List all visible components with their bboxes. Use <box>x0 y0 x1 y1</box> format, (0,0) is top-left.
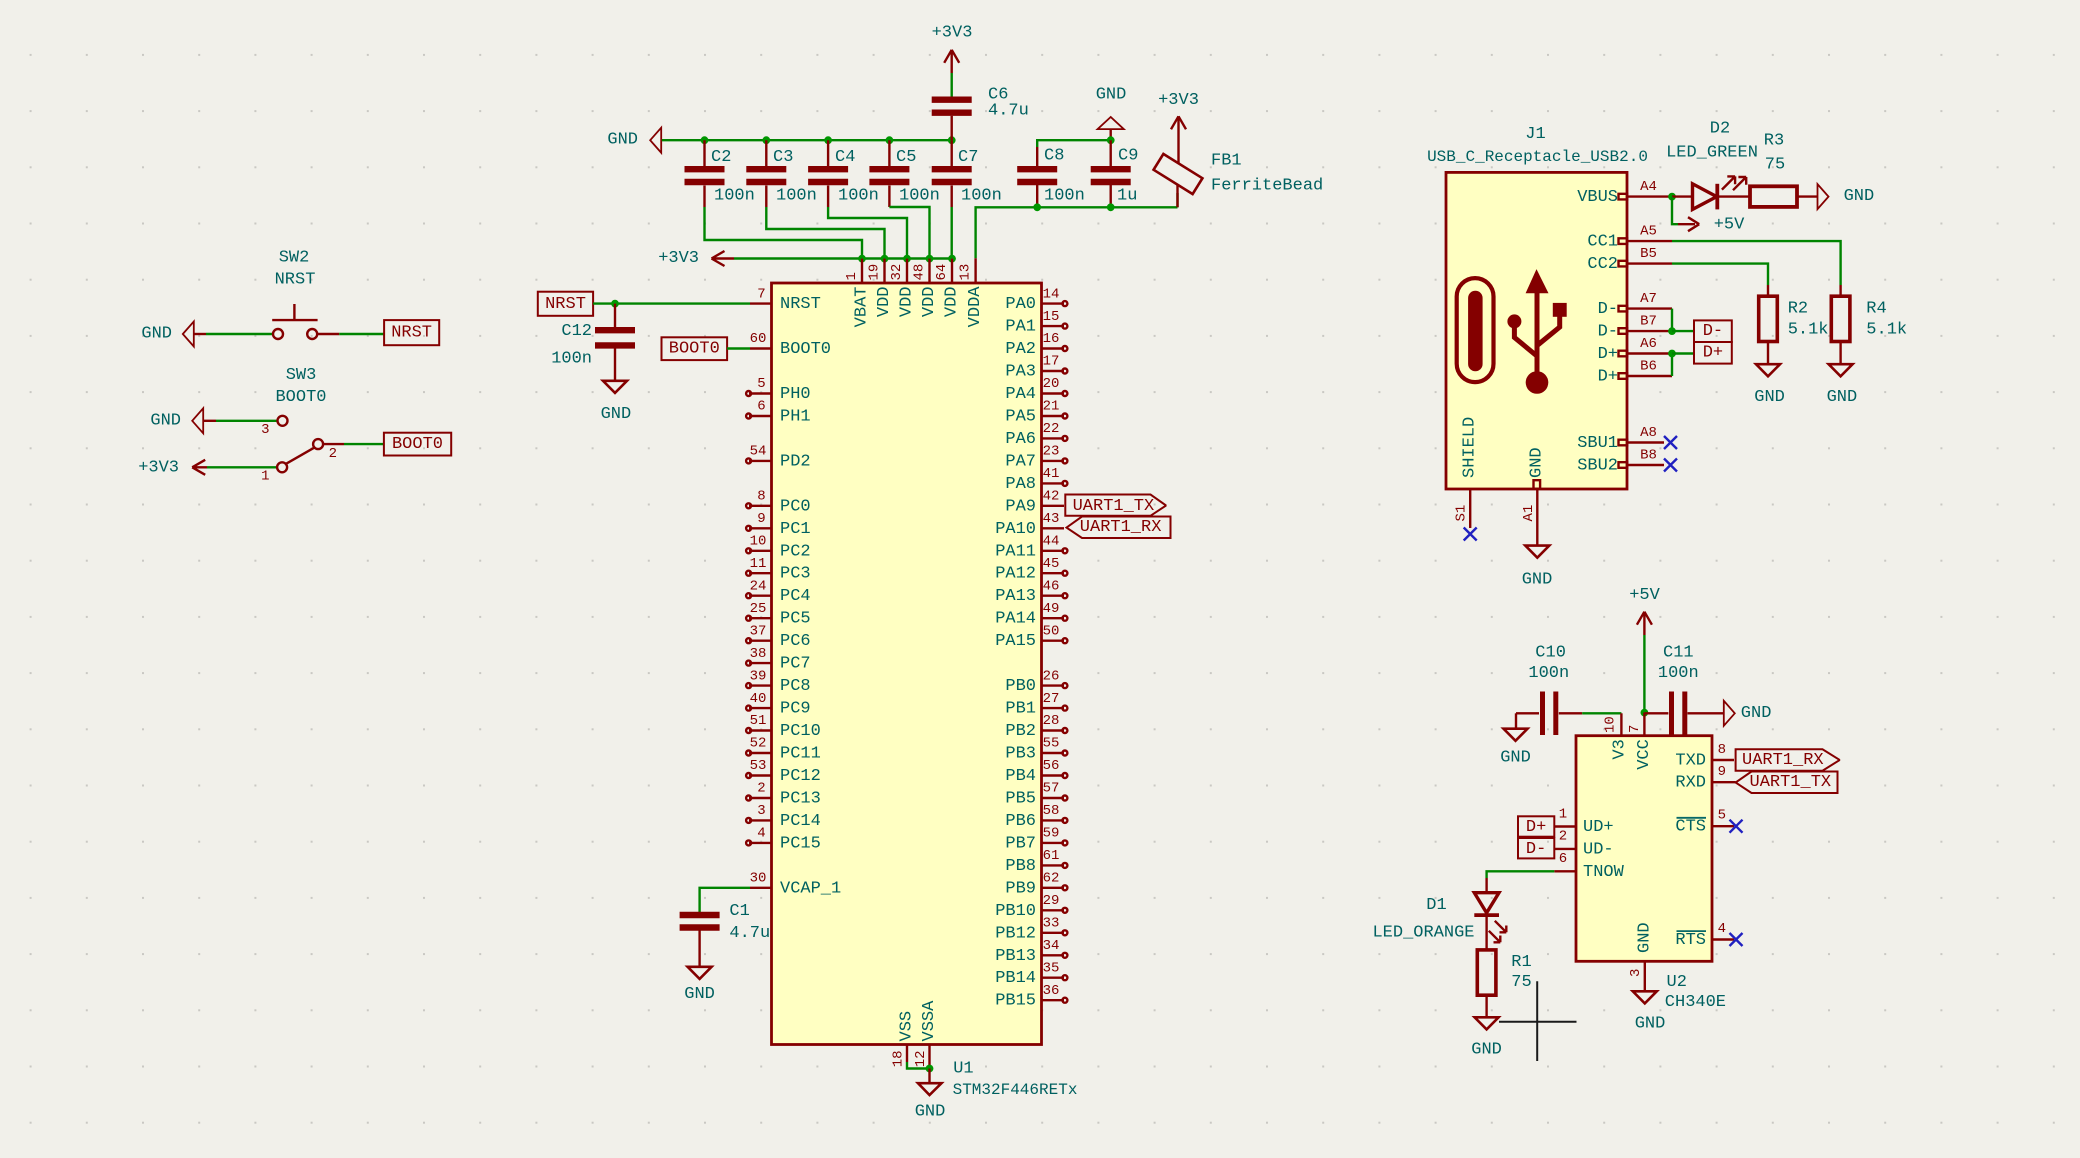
capacitor C9 <box>1091 140 1139 207</box>
net label NRST (SW2) <box>384 320 439 345</box>
svg-text:GND: GND <box>601 405 632 424</box>
svg-text:PC3: PC3 <box>780 565 811 584</box>
capacitor C3 <box>746 140 817 207</box>
junction (VBUS node) <box>1668 193 1676 201</box>
capacitor C4 <box>808 140 879 207</box>
junction (C9 top) <box>1107 136 1115 144</box>
svg-text:4.7u: 4.7u <box>988 101 1029 120</box>
svg-text:10: 10 <box>750 534 767 550</box>
resistor R2 <box>1759 285 1829 364</box>
svg-text:PC0: PC0 <box>780 497 811 516</box>
svg-text:10: 10 <box>1603 716 1619 733</box>
junction (C12 top) <box>611 300 619 308</box>
svg-text:VDD: VDD <box>875 287 894 318</box>
J1 vertical pin names SHIELD GND <box>1461 417 1547 478</box>
svg-text:18: 18 <box>891 1050 907 1067</box>
svg-text:55: 55 <box>1043 736 1060 752</box>
svg-text:+3V3: +3V3 <box>932 23 973 42</box>
svg-text:24: 24 <box>750 578 767 594</box>
svg-text:20: 20 <box>1043 376 1060 392</box>
junction (VDD pin64) <box>948 255 956 263</box>
svg-text:GND: GND <box>1827 388 1858 407</box>
svg-text:TXD: TXD <box>1675 752 1706 771</box>
net label D+ (U2) <box>1518 816 1554 837</box>
U1 top pin stubs <box>862 258 976 283</box>
svg-text:PA8: PA8 <box>1005 475 1036 494</box>
svg-text:UD+: UD+ <box>1583 818 1614 837</box>
svg-text:33: 33 <box>1043 916 1060 932</box>
svg-text:BOOT0: BOOT0 <box>669 340 720 359</box>
svg-text:PA0: PA0 <box>1005 295 1036 314</box>
svg-text:61: 61 <box>1043 848 1060 864</box>
svg-text:SBU1: SBU1 <box>1577 434 1618 453</box>
svg-text:A7: A7 <box>1640 291 1657 307</box>
wire GND to SW2 pin1 <box>194 333 206 335</box>
wire D+ B6 to A6 node <box>1671 354 1673 377</box>
svg-text:PD2: PD2 <box>780 452 811 471</box>
svg-text:GND: GND <box>1741 704 1772 723</box>
svg-text:PC13: PC13 <box>780 790 821 809</box>
U1 bottom pin numbers 18 12 <box>891 1050 930 1067</box>
ground flag GND (C11) <box>1724 701 1772 726</box>
graphic cross lines <box>1499 981 1577 1061</box>
svg-text:75: 75 <box>1511 973 1531 992</box>
capacitor C5 <box>869 140 939 207</box>
svg-text:PA12: PA12 <box>995 565 1036 584</box>
svg-text:UD-: UD- <box>1583 840 1614 859</box>
power symbol +3V3 (VDD bus) <box>658 249 734 268</box>
svg-text:GND: GND <box>1844 187 1875 206</box>
svg-text:GND: GND <box>1635 922 1654 953</box>
ground flag GND (SW2) <box>183 322 194 347</box>
junction (C5 top) <box>886 136 894 144</box>
wire +3V3 VDD bus <box>734 257 952 259</box>
svg-text:26: 26 <box>1043 668 1060 684</box>
ground symbol GND (C12) <box>601 381 632 424</box>
svg-text:PC6: PC6 <box>780 632 811 651</box>
wire D1 to R1 <box>1485 915 1487 950</box>
svg-text:PC8: PC8 <box>780 677 811 696</box>
svg-text:PB8: PB8 <box>1005 857 1036 876</box>
svg-text:9: 9 <box>757 511 765 527</box>
svg-text:B5: B5 <box>1640 246 1657 262</box>
svg-text:54: 54 <box>750 444 767 460</box>
svg-text:34: 34 <box>1043 938 1060 954</box>
svg-text:23: 23 <box>1043 444 1060 460</box>
wire CC1 to R4 <box>1672 241 1841 285</box>
svg-text:49: 49 <box>1043 601 1060 617</box>
switch SW2 body <box>272 304 317 339</box>
svg-text:A4: A4 <box>1640 179 1657 195</box>
svg-text:21: 21 <box>1043 399 1060 415</box>
junction (D+ node) <box>1668 350 1676 358</box>
U1 bottom pin stubs VSS VSSA <box>907 1045 930 1069</box>
svg-text:37: 37 <box>750 623 767 639</box>
svg-text:53: 53 <box>750 758 767 774</box>
svg-text:5: 5 <box>1718 808 1726 824</box>
svg-text:R3: R3 <box>1764 132 1784 151</box>
wire C2 to VBAT <box>705 207 863 259</box>
wire C10 to V3 pin <box>1582 712 1621 714</box>
LED D2 <box>1666 120 1758 210</box>
svg-text:GND: GND <box>1528 447 1547 478</box>
junction (C6/C7 node) <box>948 136 956 144</box>
svg-text:PA13: PA13 <box>995 587 1036 606</box>
svg-text:13: 13 <box>958 264 974 281</box>
power symbol +5V (U2) <box>1629 586 1660 635</box>
svg-text:38: 38 <box>750 646 767 662</box>
wire SW3 pin2 to BOOT0 label <box>323 443 344 445</box>
junction (C8 bottom) <box>1033 203 1041 211</box>
svg-text:PA11: PA11 <box>995 542 1036 561</box>
J1 USB-C capsule icon <box>1457 278 1494 382</box>
svg-text:B7: B7 <box>1640 313 1657 329</box>
svg-text:R4: R4 <box>1866 299 1886 318</box>
svg-text:4.7u: 4.7u <box>729 924 770 943</box>
svg-text:4: 4 <box>757 826 765 842</box>
svg-text:PB1: PB1 <box>1005 700 1036 719</box>
svg-text:PB9: PB9 <box>1005 879 1036 898</box>
svg-text:41: 41 <box>1043 466 1060 482</box>
svg-text:3: 3 <box>757 803 765 819</box>
svg-text:A1: A1 <box>1521 505 1537 522</box>
svg-text:C2: C2 <box>711 148 731 167</box>
svg-text:8: 8 <box>1718 742 1726 758</box>
wire VCAP_1 to C1 <box>700 888 750 912</box>
resistor R1 <box>1477 950 1531 995</box>
svg-text:+3V3: +3V3 <box>658 249 699 268</box>
svg-text:D-: D- <box>1598 323 1618 342</box>
svg-text:1: 1 <box>261 468 269 484</box>
svg-text:S1: S1 <box>1454 505 1470 522</box>
svg-text:VCC: VCC <box>1635 739 1654 770</box>
svg-text:C3: C3 <box>773 148 793 167</box>
svg-text:15: 15 <box>1043 309 1060 325</box>
U1 right pin end circles <box>1062 301 1067 1003</box>
svg-text:PA1: PA1 <box>1005 318 1036 337</box>
svg-text:50: 50 <box>1043 623 1060 639</box>
svg-text:45: 45 <box>1043 556 1060 572</box>
svg-text:FerriteBead: FerriteBead <box>1211 177 1323 196</box>
svg-text:GND: GND <box>915 1102 946 1121</box>
svg-text:GND: GND <box>684 985 715 1004</box>
svg-text:U1: U1 <box>953 1060 973 1079</box>
svg-text:FB1: FB1 <box>1211 152 1242 171</box>
svg-text:R1: R1 <box>1511 953 1531 972</box>
svg-text:PB5: PB5 <box>1005 790 1036 809</box>
svg-text:LED_GREEN: LED_GREEN <box>1666 144 1758 163</box>
svg-text:GND: GND <box>1635 1015 1666 1034</box>
svg-text:11: 11 <box>750 556 767 572</box>
svg-text:PC5: PC5 <box>780 610 811 629</box>
svg-text:PA4: PA4 <box>1005 385 1036 404</box>
svg-text:PA15: PA15 <box>995 632 1036 651</box>
svg-text:PB15: PB15 <box>995 992 1036 1011</box>
svg-text:59: 59 <box>1043 826 1060 842</box>
ground symbol GND (U2 pin3) <box>1633 991 1666 1033</box>
no-connect X (SBU2) <box>1664 459 1677 472</box>
svg-text:36: 36 <box>1043 983 1060 999</box>
svg-text:D+: D+ <box>1703 344 1723 363</box>
junction (VDD pin32) <box>903 255 911 263</box>
svg-text:5.1k: 5.1k <box>1866 321 1907 340</box>
junction (C4 top) <box>824 136 832 144</box>
ground flag GND (R3) <box>1818 184 1875 209</box>
ground symbol GND (U1) <box>915 1069 946 1122</box>
svg-text:CTS: CTS <box>1675 818 1706 837</box>
capacitor C10 <box>1516 643 1582 735</box>
svg-text:PC9: PC9 <box>780 700 811 719</box>
svg-text:VDD: VDD <box>943 287 962 318</box>
svg-text:UART1_TX: UART1_TX <box>1073 497 1155 516</box>
net label BOOT0 (SW3) <box>384 433 451 456</box>
svg-text:PA14: PA14 <box>995 610 1036 629</box>
U2 right pin names TXD RXD CTS RTS <box>1675 752 1706 951</box>
svg-text:BOOT0: BOOT0 <box>780 340 831 359</box>
svg-text:PB13: PB13 <box>995 947 1036 966</box>
svg-text:+3V3: +3V3 <box>138 458 179 477</box>
wire C8 top to GND node <box>1037 140 1111 147</box>
J1 pin labels A4 A5 B5 A7 B7 A6 B6 A8 B8 <box>1640 179 1657 463</box>
J1 USB trident icon <box>1507 269 1566 394</box>
U2 CTS overline <box>1677 817 1707 819</box>
svg-text:+5V: +5V <box>1714 216 1745 235</box>
junction (C9 bottom) <box>1107 203 1115 211</box>
svg-text:D-: D- <box>1598 300 1618 319</box>
svg-text:VBAT: VBAT <box>853 287 872 328</box>
svg-text:100n: 100n <box>1658 664 1699 683</box>
U1 right pin numbers <box>1043 286 1060 999</box>
svg-text:35: 35 <box>1043 960 1060 976</box>
svg-text:D-: D- <box>1526 840 1546 859</box>
svg-text:C9: C9 <box>1118 147 1138 166</box>
svg-text:USB_C_Receptacle_USB2.0: USB_C_Receptacle_USB2.0 <box>1427 148 1648 166</box>
power symbol +3V3 (SW3) <box>138 458 207 477</box>
svg-text:D+: D+ <box>1598 345 1618 364</box>
power symbol +3V3 (above C6) <box>932 23 973 73</box>
net label D- (U2) <box>1518 838 1554 859</box>
wire BOOT0 label to U1 pin60 <box>727 347 750 349</box>
svg-text:U2: U2 <box>1667 973 1687 992</box>
U1 bottom pin names VSS VSSA <box>898 1000 940 1042</box>
svg-text:PC15: PC15 <box>780 834 821 853</box>
svg-text:STM32F446RETx: STM32F446RETx <box>953 1081 1078 1099</box>
U2 left pin names UD+ UD- TNOW <box>1583 818 1625 882</box>
switch SW3 body <box>277 416 323 473</box>
U2 pin numbers <box>1559 742 1726 937</box>
svg-text:PC10: PC10 <box>780 722 821 741</box>
svg-text:PB6: PB6 <box>1005 812 1036 831</box>
svg-text:52: 52 <box>750 736 767 752</box>
svg-text:8: 8 <box>757 489 765 505</box>
global label UART1_TX (PA9) <box>1065 495 1165 516</box>
J1 bottom pin S1 <box>1469 489 1471 528</box>
global label UART1_TX (U2 RXD) <box>1736 772 1838 794</box>
svg-text:C10: C10 <box>1535 643 1566 662</box>
svg-text:GND: GND <box>1096 86 1127 105</box>
wire C7 to VDD64 <box>951 207 953 259</box>
svg-text:V3: V3 <box>1611 739 1630 759</box>
U2 top pin numbers 10 7 <box>1603 716 1644 733</box>
svg-text:7: 7 <box>1627 725 1643 733</box>
svg-text:BOOT0: BOOT0 <box>392 435 443 454</box>
wire D2 to R3 <box>1717 195 1750 197</box>
svg-text:VCAP_1: VCAP_1 <box>780 879 841 898</box>
svg-text:22: 22 <box>1043 421 1060 437</box>
ground symbol GND (R4) <box>1827 364 1858 407</box>
net label D- (J1) <box>1694 320 1732 342</box>
svg-text:30: 30 <box>750 871 767 887</box>
svg-text:PA3: PA3 <box>1005 363 1036 382</box>
junction (VDD pin19) <box>881 255 889 263</box>
svg-text:GND: GND <box>141 325 172 344</box>
ground symbol GND (C10) <box>1500 713 1531 767</box>
U1 left pin numbers <box>750 286 767 886</box>
ground flag GND (top rail) <box>650 128 661 153</box>
svg-text:VSSA: VSSA <box>920 1000 939 1042</box>
svg-text:PC11: PC11 <box>780 745 821 764</box>
svg-text:100n: 100n <box>1528 664 1569 683</box>
U1 left pin end circles <box>746 391 751 845</box>
wire R3 to GND <box>1797 195 1818 197</box>
svg-text:100n: 100n <box>961 187 1002 206</box>
svg-text:RTS: RTS <box>1675 931 1706 950</box>
wire R1 to GND <box>1485 995 1487 1017</box>
svg-text:A5: A5 <box>1640 223 1657 239</box>
svg-text:14: 14 <box>1043 286 1060 302</box>
no-connect X (S1) <box>1464 528 1477 541</box>
capacitor C6 <box>932 86 1029 141</box>
MCU U1 body <box>772 283 1042 1045</box>
svg-text:C11: C11 <box>1663 643 1694 662</box>
U1 right pin lines <box>1042 304 1065 1001</box>
USB connector J1 body <box>1446 172 1627 489</box>
svg-text:A6: A6 <box>1640 336 1657 352</box>
wire +5V to VCC <box>1643 635 1645 713</box>
svg-text:NRST: NRST <box>275 271 316 290</box>
svg-text:62: 62 <box>1043 871 1060 887</box>
U2 pin lines <box>1554 760 1735 991</box>
wire +3V3 to SW3 pin1 <box>207 466 277 468</box>
U1 left pin names <box>780 295 841 898</box>
svg-text:GND: GND <box>1754 388 1785 407</box>
svg-text:60: 60 <box>750 331 767 347</box>
svg-text:PB14: PB14 <box>995 969 1036 988</box>
svg-text:VDDA: VDDA <box>966 286 985 328</box>
svg-text:27: 27 <box>1043 691 1060 707</box>
svg-text:1: 1 <box>1559 806 1567 822</box>
J1 pin lines right <box>1627 197 1672 465</box>
svg-text:PC2: PC2 <box>780 542 811 561</box>
junction (VSS/VSSA) <box>926 1065 934 1073</box>
wire VDDA bus <box>976 207 1178 258</box>
svg-text:TNOW: TNOW <box>1583 863 1625 882</box>
svg-text:GND: GND <box>1471 1040 1502 1059</box>
capacitor C2 <box>685 140 755 207</box>
svg-text:PH0: PH0 <box>780 385 811 404</box>
svg-text:17: 17 <box>1043 354 1060 370</box>
svg-text:5.1k: 5.1k <box>1788 321 1829 340</box>
wire NRST label to U1 pin7 <box>593 302 750 304</box>
U2 RTS overline <box>1677 930 1707 932</box>
no-connect X (CTS) <box>1730 820 1743 833</box>
ground symbol GND (J1 A1) <box>1522 546 1553 590</box>
svg-text:B6: B6 <box>1640 358 1657 374</box>
svg-text:43: 43 <box>1043 511 1060 527</box>
svg-text:PB12: PB12 <box>995 924 1036 943</box>
svg-text:NRST: NRST <box>780 295 821 314</box>
U1 left pin lines <box>749 304 772 888</box>
svg-text:D+: D+ <box>1526 818 1546 837</box>
wire C4 to VDD32 <box>828 207 907 259</box>
svg-text:GND: GND <box>1500 749 1531 768</box>
svg-text:16: 16 <box>1043 331 1060 347</box>
svg-text:PB7: PB7 <box>1005 834 1036 853</box>
svg-text:PB2: PB2 <box>1005 722 1036 741</box>
svg-text:VDD: VDD <box>898 287 917 318</box>
svg-text:56: 56 <box>1043 758 1060 774</box>
svg-text:25: 25 <box>750 601 767 617</box>
svg-text:46: 46 <box>1043 578 1060 594</box>
ground flag GND (SW3) <box>192 408 203 433</box>
U2 VCC pin stub <box>1643 713 1645 736</box>
svg-text:6: 6 <box>757 399 765 415</box>
svg-text:PC12: PC12 <box>780 767 821 786</box>
svg-text:58: 58 <box>1043 803 1060 819</box>
svg-text:5: 5 <box>757 376 765 392</box>
svg-text:PC1: PC1 <box>780 520 811 539</box>
svg-text:C5: C5 <box>896 148 916 167</box>
svg-text:48: 48 <box>912 264 928 281</box>
svg-text:PA7: PA7 <box>1005 452 1036 471</box>
svg-text:44: 44 <box>1043 534 1060 550</box>
svg-text:C8: C8 <box>1044 147 1064 166</box>
svg-text:75: 75 <box>1765 155 1785 174</box>
ground symbol GND (R1) <box>1471 1017 1502 1059</box>
svg-text:D2: D2 <box>1710 120 1730 139</box>
J1 bottom pin A1 <box>1536 489 1538 546</box>
svg-text:32: 32 <box>889 264 905 281</box>
svg-text:4: 4 <box>1718 921 1726 937</box>
capacitor C7 <box>932 140 1002 207</box>
wire VSS to VSSA <box>907 1062 930 1069</box>
svg-text:RXD: RXD <box>1675 774 1706 793</box>
svg-text:CC1: CC1 <box>1587 233 1618 252</box>
svg-text:C1: C1 <box>729 902 749 921</box>
wire +3V3 to C6 <box>951 73 953 97</box>
junction (VDD pin48) <box>926 255 934 263</box>
svg-text:100n: 100n <box>714 187 755 206</box>
svg-text:PC4: PC4 <box>780 587 811 606</box>
capacitor C1 <box>680 902 771 967</box>
svg-text:GND: GND <box>607 131 638 150</box>
svg-text:19: 19 <box>867 264 883 281</box>
svg-text:PA9: PA9 <box>1005 497 1036 516</box>
svg-text:B8: B8 <box>1640 447 1657 463</box>
capacitor C11 <box>1644 643 1723 735</box>
svg-text:UART1_RX: UART1_RX <box>1080 518 1162 537</box>
svg-text:GND: GND <box>150 411 181 430</box>
net label D+ (J1) <box>1694 342 1732 364</box>
ferrite bead FB1 <box>1154 116 1324 207</box>
svg-text:CH340E: CH340E <box>1665 993 1726 1012</box>
svg-text:+5V: +5V <box>1629 586 1660 605</box>
svg-text:100n: 100n <box>776 187 817 206</box>
svg-text:39: 39 <box>750 668 767 684</box>
svg-text:SBU2: SBU2 <box>1577 457 1618 476</box>
ground symbol GND (R2) <box>1754 364 1785 407</box>
svg-text:J1: J1 <box>1525 125 1545 144</box>
